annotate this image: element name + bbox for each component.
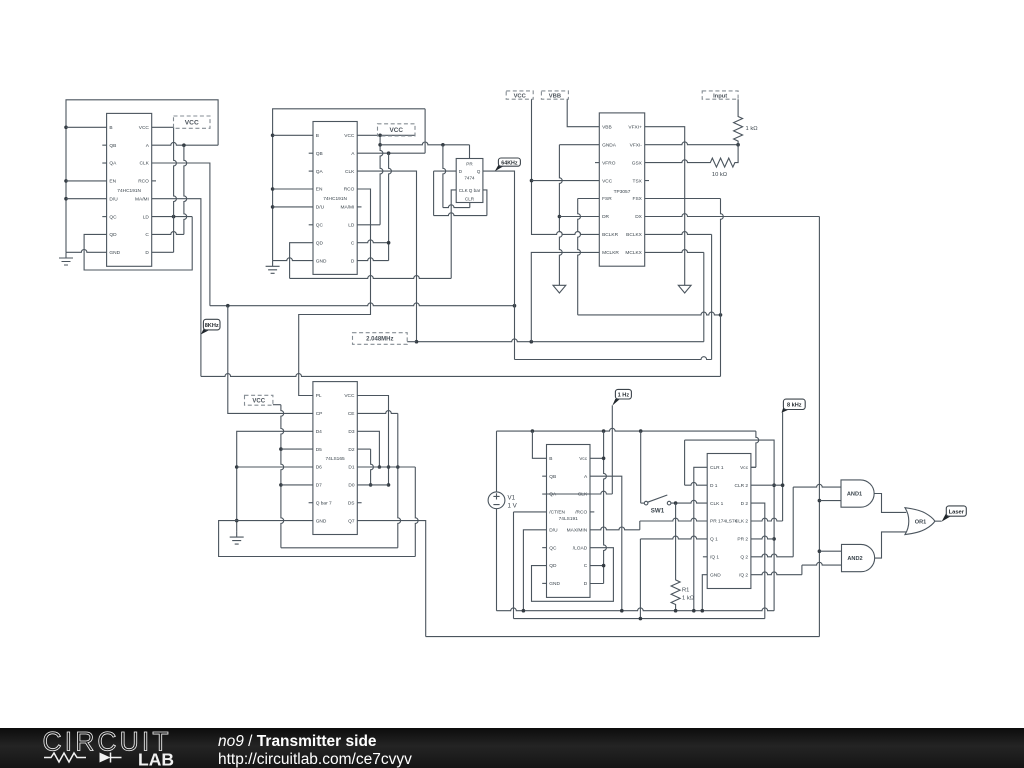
wire: /Q2 to AND2 input [751,572,802,575]
wire: IC1 D/U to rail [66,198,107,200]
svg-text:TP3057: TP3057 [614,189,631,195]
svg-text:C: C [351,240,355,246]
wire: FSX to H4 and 8KHz bus H2 [645,198,721,200]
flag 1 Hz with wire to CLK [547,405,613,494]
wire: IC2 B to rail [273,134,313,136]
ground G1 [59,252,73,265]
counter U1 74HC191N [102,113,156,266]
wire: VCC pin to D1 D0 [357,396,390,487]
svg-text:B: B [316,133,319,139]
wire: 7474 Q 64KHz output to FSR/BCLKX nets [483,171,712,359]
svg-text:GSX: GSX [632,160,643,166]
wire: VCC label to VCC pin and BCLKR [530,99,600,234]
svg-text:VCC: VCC [514,93,527,99]
wire: QD to /LOAD loop [532,548,614,602]
svg-text:DR: DR [602,214,609,220]
ground arrow GA2 [678,285,691,293]
wire: Vcc74 to bus1 [751,466,756,468]
svg-text:QA: QA [549,492,557,498]
wire: IC2 RCO to 74LS165 PL [299,189,371,396]
svg-text:BCLKR: BCLKR [602,232,619,238]
svg-text:BCLKX: BCLKX [626,232,643,238]
wire: A output to bus_A [590,476,622,611]
counter U2 74HC191N [309,122,362,275]
svg-text:74LS191: 74LS191 [559,516,579,522]
svg-text:GND: GND [549,581,560,587]
svg-text:Q7: Q7 [348,518,355,524]
wire: bus1 top rail of low section [497,428,759,467]
vcc label VCC4 [245,395,273,405]
svg-text:VBB: VBB [549,93,561,99]
svg-text:D/U: D/U [109,196,118,202]
svg-text:1 kΩ: 1 kΩ [746,126,759,132]
svg-text:http://circuitlab.com/ce7cvyv: http://circuitlab.com/ce7cvyv [218,751,412,768]
svg-text:64KHz: 64KHz [501,160,518,166]
wire: DX to AND2 upper input [819,550,841,552]
svg-text:LD: LD [348,223,355,229]
flag Laser [942,506,967,522]
wire: IC1 CLK to 64KHz bus H1 [152,163,517,308]
svg-text:VCC: VCC [390,127,404,134]
svg-text:/CT/EN: /CT/EN [549,510,565,516]
and gate AND1 [841,480,874,507]
wire: PR net from IC2 VCC to 7474 PR/CLR [380,142,469,158]
flag 8KHz [201,319,220,334]
wire: CLR2 row [751,484,783,486]
svg-text:EN: EN [316,187,323,193]
wire: bus_A V1 negative rail [497,608,775,613]
wire: D1 CLR2 PR2 net (W47) [685,440,776,611]
svg-text:D4: D4 [316,429,322,435]
svg-text:Q 2: Q 2 [740,555,748,561]
vcc label VCC3 [506,91,533,99]
wire: D2 to bus_B [751,503,765,618]
wire: /CT/EN to bus_B [514,511,547,513]
svg-text:QC: QC [109,214,117,220]
svg-text:D/U: D/U [549,527,558,533]
svg-text:74LS165: 74LS165 [325,456,345,462]
wire: PR2 row [751,536,774,539]
svg-text:V1: V1 [508,494,516,501]
wire: MCLKX to 2.048MHz bus [645,250,704,253]
flip-flop U7 74LS74 [703,454,751,589]
svg-text:D: D [351,258,355,264]
svg-text:CLK: CLK [140,161,150,167]
wire: D2 to D0 [357,449,373,487]
svg-text:PR: PR [466,162,473,167]
wire: AND1 output to OR1 [874,494,906,513]
svg-text:GND: GND [109,250,120,256]
svg-text:D7: D7 [316,483,322,489]
wire: D5 to VCC4 net [281,448,313,450]
net label 2.048MHz [407,341,416,343]
shift register U5 74LS165 [309,382,362,535]
svg-text:QD: QD [549,563,557,569]
svg-text:D 1: D 1 [710,483,718,489]
wire: CE to D1 net [357,411,400,548]
svg-text:LAB: LAB [138,750,174,768]
wire: D0 row [357,484,388,486]
wire: IC1 QD to LD loop [84,217,192,270]
wire: FSR to FSX/DX bus H4 [578,199,723,317]
svg-text:DX: DX [635,214,642,220]
svg-text:AND1: AND1 [847,492,862,498]
svg-text:D: D [145,250,149,256]
wire: MAX/MIN to 74LS74 PR1 [590,527,640,530]
ground G3 [230,531,244,544]
svg-text:VCC: VCC [344,393,355,399]
svg-text:VCC: VCC [602,178,613,184]
wire: IC1 A to C (vertical) [152,145,187,234]
svg-text:RCO: RCO [344,187,355,193]
svg-text:74HC191N: 74HC191N [323,196,347,202]
svg-text:QC: QC [549,545,557,551]
svg-text:VCC: VCC [185,119,199,126]
svg-text:/LOAD: /LOAD [573,545,588,551]
svg-text:TSX: TSX [633,178,643,184]
svg-text:10 kΩ: 10 kΩ [712,172,728,178]
svg-text:MCLKX: MCLKX [625,250,642,256]
svg-text:/Q 1: /Q 1 [710,555,719,561]
resistor R2 1k (vertical) [734,99,759,145]
svg-text:CP: CP [316,411,323,417]
wire: IC2 A to C and D (vertical) [357,153,391,260]
svg-text:1 kΩ: 1 kΩ [682,596,695,602]
svg-text:SW1: SW1 [651,508,665,515]
wire: VFXI+ to ground arrow [645,127,685,286]
wire: GNDA to ground [558,145,600,286]
wire: IC1 ground rail / A feedback loop [64,100,218,253]
svg-text:VFRO: VFRO [602,160,616,166]
svg-text:QD: QD [316,240,324,246]
svg-text:EN: EN [109,179,116,185]
wire: IC2 GND to rail [273,258,313,261]
wire: IC2 VCC to LD (vertical) [357,135,383,225]
wire: VFXI- to R divider node [645,142,740,147]
vcc label VCC1 [174,116,211,128]
and gate AND2 [842,544,875,571]
svg-text:QB: QB [109,143,116,149]
svg-text:CLR 1: CLR 1 [710,465,724,471]
svg-text:MCLKR: MCLKR [602,250,619,256]
svg-text:8 kHz: 8 kHz [787,403,802,409]
svg-text:D2: D2 [348,447,354,453]
flag 8 kHz [782,399,806,413]
svg-text:GNDA: GNDA [602,142,617,148]
wire: IC2 ground rail / A feedback loop [271,109,425,261]
wire: VCC pin [532,180,600,182]
svg-text:CLR 2: CLR 2 [734,483,748,489]
svg-text:VFXI-: VFXI- [630,142,643,148]
wire: 2.048MHz bus H3 [415,339,704,344]
wire: DX to AND gates (long vertical) [645,214,822,637]
wire: IC1 EN to rail [66,180,107,182]
wire: IC2 D/U to rail [273,206,313,208]
svg-text:GND: GND [316,518,327,524]
svg-text:D5: D5 [316,447,322,453]
wire: GND pin loop under IC [219,521,416,557]
svg-text:MA/MI: MA/MI [135,196,149,202]
wire: D3 to D1 [357,431,381,469]
svg-text:PR 1: PR 1 [710,519,721,525]
svg-text:CLR: CLR [465,196,475,201]
svg-text:B: B [549,456,552,462]
svg-text:VCC: VCC [344,133,355,139]
wire: IC2 QD to 7474 CLK [290,190,457,279]
wire: GND of 74LS74 to bus_A [702,575,707,611]
svg-text:CLK 1: CLK 1 [710,501,724,507]
svg-text:QB: QB [549,474,556,480]
svg-text:AND2: AND2 [847,556,862,562]
svg-text:Q bar 7: Q bar 7 [316,500,332,506]
wire: 7474 Qbar to D loop [434,170,457,172]
svg-text:D: D [584,581,588,587]
wire: D6 to ground net [237,466,313,468]
svg-text:OR1: OR1 [915,519,927,525]
svg-text:1 V: 1 V [508,502,518,509]
wire: Q7 output to bottom bus [357,521,425,637]
svg-text:D6: D6 [316,465,322,471]
svg-text:CLK: CLK [578,492,588,498]
svg-text:/Q 2: /Q 2 [739,572,748,578]
svg-text:QA: QA [109,161,117,167]
input label Input [702,91,738,99]
wire: LS191 B to bus1 [532,431,546,458]
svg-text:QD: QD [109,232,117,238]
wire: SW1 to bus1 [640,431,642,503]
wire: VBB label to VBB pin [567,99,599,127]
wire: Q1 to bus_B [640,536,707,539]
svg-text:Input: Input [713,93,727,99]
wire: 64KHz bus to 74LS165 CP [228,306,313,414]
wire: D/U to bus_A [523,530,546,611]
svg-text:CLK: CLK [459,188,469,193]
svg-text:VBB: VBB [602,124,612,130]
flag 64KHz [495,158,521,171]
wire: D7 to VCC4 net [281,484,313,486]
vcc label VCC2 [378,124,416,136]
resistor R1 1k [671,503,695,611]
wire: IC1 B to rail [66,126,107,128]
wire: IC1 GND to rail [66,250,107,253]
wire: D1 row to GND loop [357,466,415,468]
svg-text:no9 / Transmitter side: no9 / Transmitter side [218,733,377,750]
wire: CLR1 to bus_A [694,467,707,610]
voltage source V1 1V [488,431,518,611]
svg-text:1 Hz: 1 Hz [618,392,630,398]
flip-flop U3 7474 [456,159,483,203]
svg-text:PR 2: PR 2 [737,537,748,543]
svg-text:RCO: RCO [138,179,149,185]
wire: VCC4 label to D5 D7 D1 net [273,405,398,548]
svg-text:R1: R1 [682,588,689,594]
svg-text:MAX/MIN: MAX/MIN [567,527,588,533]
wire: DX to AND1 lower input [819,500,841,502]
wire: IC2 CLK to 2.048MHz node [357,171,416,342]
wire: CLK2 to 8 kHz flag [751,412,784,521]
svg-text:/RCO: /RCO [575,510,587,516]
svg-text:VCC: VCC [252,398,265,404]
svg-text:VFXI+: VFXI+ [628,124,642,130]
svg-text:GND: GND [710,572,721,578]
wire: bus_C Q7 to DX rail [426,636,820,638]
switch SW1 [641,495,671,515]
svg-text:CE: CE [348,411,355,417]
wire: D4 D6 GND to ground [235,431,313,531]
wire: 7474 PR to CLR [443,145,446,208]
svg-text:C: C [145,232,149,238]
wire: OR1 output [935,520,942,522]
wire: Vcc C D vertical of LS191 [590,431,607,583]
svg-text:D/U: D/U [316,205,325,211]
svg-text:MA/MI: MA/MI [341,205,355,211]
svg-text:D0: D0 [348,483,354,489]
wire: SW1 to CLK1 with R1 tap [671,500,707,505]
vbb label VBB [541,91,568,99]
svg-text:Vcc: Vcc [579,456,588,462]
codec U4 TP3057 [595,113,649,266]
svg-text:DS: DS [348,500,355,506]
wire: MCLKR to 2.048MHz bus [531,252,599,341]
svg-text:VCC: VCC [139,125,150,131]
svg-text:2.048MHz: 2.048MHz [366,337,393,343]
or gate OR1 [905,508,935,535]
resistor R3 10k (horizontal) with GSX wire [645,145,738,179]
svg-text:7474: 7474 [464,175,475,180]
ground arrow GA1 [553,285,566,293]
svg-text:74HC191N: 74HC191N [117,188,141,194]
logo CIRCUIT LAB [43,727,175,768]
ground G2 [266,261,280,274]
wire: DR to GNDA net [559,216,599,218]
svg-text:LD: LD [143,214,150,220]
svg-text:8KHz: 8KHz [205,323,219,329]
wire: AND2 output to OR1 [875,532,906,558]
svg-text:D 2: D 2 [741,501,749,507]
svg-text:Q 1: Q 1 [710,537,718,543]
svg-text:QA: QA [316,169,324,175]
wire: VCC to LD and D (vertical) [152,127,177,252]
svg-text:Laser: Laser [949,509,965,515]
svg-text:GND: GND [316,258,327,264]
svg-text:Vcc: Vcc [740,465,749,471]
svg-text:FSR: FSR [602,196,612,202]
wire: IC2 EN to rail [273,188,313,190]
svg-text:D3: D3 [348,429,354,435]
svg-text:Q bar: Q bar [469,188,481,193]
wire: IC1 LD [152,215,193,219]
svg-text:FSX: FSX [633,196,643,202]
svg-text:QB: QB [316,151,323,157]
svg-text:QC: QC [316,223,324,229]
svg-text:Q: Q [477,169,481,174]
counter U6 74LS191 [542,445,594,598]
wire: Q2 to AND1 input [751,554,793,557]
wire: bus_B control net rail [514,617,765,621]
svg-text:B: B [109,125,112,131]
svg-text:PL: PL [316,393,322,399]
svg-text:D1: D1 [348,465,354,471]
wire: IC2 VCC pin under label [357,134,415,138]
wire: IC1 MA/MI to 8KHz bus H2 [152,199,721,377]
wire: IC1 VCC pin to VCC label [152,126,174,128]
svg-text:74LS74: 74LS74 [721,519,738,525]
svg-text:C: C [584,563,588,569]
svg-text:CLK: CLK [345,169,355,175]
